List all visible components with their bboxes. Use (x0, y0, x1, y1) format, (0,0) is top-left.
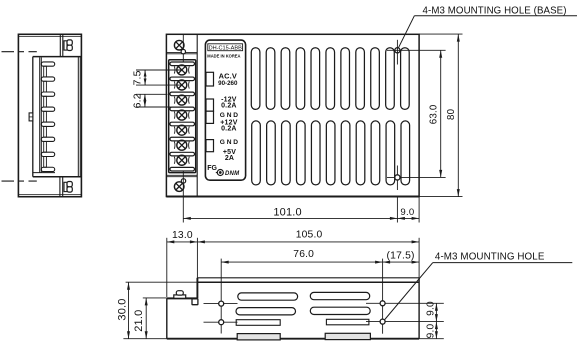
dim 9.0 upper line (435, 303, 437, 321)
side view: top cover bottom edge (33, 56, 82, 58)
side view: finger web 1 (44, 66, 47, 77)
front view: terminal screw 1 (177, 65, 187, 75)
side view: top mounting screw head (64, 41, 67, 50)
front vent slot row1 col11 (401, 48, 410, 110)
bottom view: lower-left top edge (167, 297, 198, 299)
svg-text:4-M3 MOUNTING HOLE: 4-M3 MOUNTING HOLE (435, 252, 545, 263)
side view: connector finger 6 (41, 137, 54, 141)
front view: terminal cell walls 6 (174, 142, 189, 149)
side view: terminal block bottom edge (33, 172, 55, 174)
front view: terminal screw 3 (177, 95, 187, 105)
bottom foot right (325, 333, 370, 339)
label panel: pin box -12V (206, 99, 214, 111)
bottom hole right bottom (380, 319, 385, 324)
front vent slot row1 col8 (356, 48, 365, 110)
side view: inner bottom edge line (18, 194, 81, 196)
side view: connector finger 7 (41, 152, 54, 156)
callout leader line (398, 16, 414, 49)
bottom vent slot row1 left (238, 293, 298, 300)
side view: bottom cover flange lines (59, 177, 61, 197)
side view: connector finger 5 (41, 122, 54, 126)
dim 76.0 line (221, 261, 382, 263)
bottom hole cross right bottom (366, 321, 444, 323)
bottom vent slot row2 left (236, 308, 296, 315)
dim 30.0 line (128, 282, 130, 339)
front view: terminal cell walls 2 (174, 81, 189, 88)
label logo (216, 172, 221, 174)
front vent slot row2 col6 (326, 121, 335, 185)
bottom vent slot row1 right (310, 292, 369, 299)
front view: terminal screw 4 (177, 110, 187, 120)
dim 13.0/105.0 extensions (166, 238, 168, 297)
front view: bottom corner screw (174, 182, 184, 192)
front view: terminal cell walls 1 (174, 66, 189, 73)
front bottom mounting hole (395, 175, 400, 180)
svg-text:DNM: DNM (225, 171, 240, 177)
svg-text:9.0: 9.0 (425, 301, 436, 316)
front view: terminal screw 2 (177, 80, 187, 90)
label panel: pin box 5V (206, 140, 214, 152)
svg-text:63.0: 63.0 (429, 104, 440, 124)
front view: terminal divider bar 3 (170, 92, 195, 96)
dim 101.0/9.0 extensions right (396, 197, 398, 223)
front bottom mounting hole crosslines (396, 166, 398, 191)
dim 7.5 line (144, 70, 146, 85)
label panel: pin box AC (206, 72, 214, 86)
front view: top centerline segment (182, 34, 184, 62)
front vent slot row2 col9 (371, 121, 380, 185)
front view: terminal screw 5 (177, 125, 187, 135)
front view: top plate double lines (166, 51, 197, 53)
front view: terminal divider bar 6 (170, 137, 195, 141)
svg-text:9.0: 9.0 (425, 323, 436, 338)
side view: connector finger 3 (41, 92, 54, 96)
dim 9.0/9.0 extensions (419, 338, 444, 340)
front view: terminal divider bar 8 (170, 167, 195, 171)
bottom hole cross left top (204, 303, 238, 305)
callout underline 2 (433, 262, 573, 264)
svg-text:0.2A: 0.2A (221, 126, 237, 133)
front vent slot row2 col8 (356, 121, 365, 185)
front view: terminal block outline (169, 60, 196, 173)
callout underline (414, 15, 577, 17)
bottom hole left top (219, 301, 224, 306)
svg-text:9.0: 9.0 (400, 207, 414, 218)
side view: terminal block left face (32, 57, 34, 177)
front vent slot row2 col4 (296, 121, 305, 185)
svg-text:4-M3 MOUNTING HOLE (BASE): 4-M3 MOUNTING HOLE (BASE) (423, 5, 567, 16)
side view: finger web 3 (44, 96, 47, 107)
svg-text:90-260: 90-260 (218, 80, 238, 87)
label panel: pin box +12V (206, 111, 214, 123)
bottom view: bottom edge (167, 338, 419, 340)
dim 9.0 lower line (435, 322, 437, 339)
svg-text:30.0: 30.0 (116, 298, 128, 320)
front vent slot row1 col7 (341, 48, 350, 110)
svg-text:105.0: 105.0 (296, 229, 323, 240)
dim 6.2 line (144, 94, 146, 107)
bottom vent slot row3 left (236, 320, 280, 326)
svg-text:6.2: 6.2 (133, 93, 144, 108)
svg-text:FG: FG (207, 165, 217, 172)
svg-text:101.0: 101.0 (273, 207, 302, 219)
svg-text:7.5: 7.5 (133, 70, 144, 85)
side view: connector finger 8 (41, 167, 54, 171)
side view: bottom cover top edge (33, 176, 82, 178)
front vent slot row2 col5 (311, 121, 320, 185)
front vent slot row2 col1 (252, 121, 261, 185)
front view: case outline (166, 34, 419, 196)
side view: finger web 4 (44, 111, 47, 122)
front view: bottom plate double lines (166, 174, 197, 176)
bottom hole centerline right column (382, 259, 384, 334)
dim 30.0 extension (126, 281, 198, 283)
svg-text:G N D: G N D (220, 112, 239, 119)
side view: connector finger 1 (41, 62, 54, 66)
bottom hole right top (380, 301, 385, 306)
side view: connector finger 2 (41, 77, 54, 81)
side view: top cover flange lines (59, 34, 61, 56)
bottom view: right edge (418, 278, 420, 339)
front view: top corner screw (174, 40, 184, 50)
front view: terminal divider bar 2 (170, 77, 195, 81)
side view: case right wall (77, 57, 79, 177)
front view: top small hole (181, 49, 185, 53)
svg-text:76.0: 76.0 (293, 249, 314, 260)
svg-text:13.0: 13.0 (172, 230, 193, 241)
front view: terminal cell walls 7 (174, 157, 189, 164)
front view: terminal cell walls 4 (174, 112, 189, 119)
bottom vent slot row2 right (310, 307, 370, 314)
dim 80 line (457, 34, 459, 197)
dim 63.0 line (440, 50, 442, 177)
svg-text:0.2A: 0.2A (221, 103, 237, 110)
label panel: model box (208, 44, 243, 51)
front vent slot row2 col11 (401, 121, 410, 185)
svg-text:21.0: 21.0 (133, 310, 145, 332)
svg-text:DH-C15-ABB: DH-C15-ABB (209, 45, 243, 51)
dim 21.0 extension (143, 297, 167, 299)
bottom hole left bottom (219, 320, 224, 325)
dim 7.5 extension lines (136, 69, 181, 71)
front view: terminal divider bar 5 (170, 122, 195, 126)
side view: outer case outline (18, 34, 81, 196)
dim 9.0 line (397, 217, 419, 219)
front vent slot row1 col2 (266, 48, 275, 110)
side view: finger web 2 (44, 81, 47, 92)
front vent slot row1 col9 (371, 48, 380, 110)
svg-text:MADE IN KOREA: MADE IN KOREA (207, 54, 240, 59)
front view: terminal screw 7 (177, 155, 187, 165)
front vent slot row1 col1 (251, 48, 260, 110)
front vent slot row2 col10 (386, 121, 395, 185)
callout leader 2 (385, 263, 433, 320)
bottom vent slot row3 right (326, 319, 369, 325)
dim 105.0 line (197, 241, 419, 243)
front view: terminal divider bar 1 (170, 62, 195, 66)
side view: connector face double line (39, 57, 41, 172)
front vent slot row2 col3 (282, 121, 291, 185)
bottom view: step vertical (196, 278, 198, 299)
dim 101.0 extension left (182, 172, 184, 223)
bottom hole cross left bottom (204, 321, 238, 323)
front view: case bottom edge thick (166, 196, 419, 198)
label panel outline (205, 40, 245, 180)
front vent slot row1 col10 (386, 48, 395, 110)
svg-text:G N D: G N D (220, 139, 239, 146)
dim (17.5) line (383, 261, 420, 263)
dim 80 extensions (419, 33, 462, 35)
svg-text:80: 80 (446, 108, 457, 120)
front view: terminal screw 6 (177, 140, 187, 150)
front vent slot row1 col3 (281, 48, 290, 110)
dim 101.0 line (183, 217, 397, 219)
dim 6.2 extension lines (136, 93, 168, 95)
side view: finger web 5 (44, 126, 47, 137)
front view: flange right edge (196, 34, 198, 196)
front vent slot row1 col6 (326, 48, 335, 110)
bottom view: FG screw bump (174, 295, 186, 298)
front view: terminal divider bar 4 (170, 107, 195, 111)
svg-text:2A: 2A (225, 155, 234, 162)
front view: terminal cell walls 5 (174, 127, 189, 134)
front vent slot row1 col5 (311, 48, 320, 110)
side view: inner top edge line (18, 35, 81, 37)
front view: bottom small hole (181, 179, 185, 183)
bottom view: top edge upper line (197, 277, 419, 279)
svg-text:(17.5): (17.5) (387, 251, 415, 262)
bottom view: left edge (166, 298, 168, 338)
front view: terminal cell walls 3 (174, 96, 189, 103)
dim 13.0 line (167, 241, 198, 243)
side view: top screw dashed centerline (2, 51, 37, 53)
side view: bottom mounting screw head (64, 182, 67, 191)
side view: latch bump (29, 113, 33, 121)
front vent slot row1 col4 (296, 48, 305, 110)
bottom view: top edge lower line (197, 281, 419, 283)
front top hole crosslines (396, 40, 398, 65)
front top mounting hole (395, 48, 400, 53)
side view: finger web 6 (44, 141, 47, 152)
bottom hole centerline left column (220, 259, 222, 334)
dim 21.0 line (145, 298, 147, 339)
front view: terminal divider bar 7 (170, 152, 195, 156)
side view: finger web 7 (44, 157, 47, 168)
bottom hole cross right top (366, 302, 444, 304)
front vent slot row2 col7 (341, 121, 350, 185)
front vent slot row2 col2 (267, 121, 276, 185)
bottom view: step notch square (192, 299, 198, 305)
side view: bottom screw dashed centerline (2, 180, 37, 182)
bottom foot left (237, 334, 280, 340)
side view: connector finger 4 (41, 107, 54, 111)
